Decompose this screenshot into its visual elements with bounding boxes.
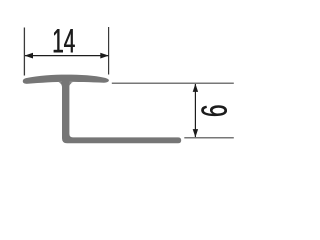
extension line left of dimension 14 — [23, 28, 25, 76]
dimension line 14 — [25, 55, 109, 57]
svg-text:9: 9 — [193, 105, 233, 117]
extension line right of dimension 14 — [108, 27, 110, 75]
dimension text 14 — [52, 22, 76, 61]
extension line bottom of dimension 9 — [184, 137, 234, 139]
arrowhead up — [193, 84, 198, 92]
svg-text:14: 14 — [53, 22, 76, 61]
stem-cap fillet right — [69, 82, 72, 87]
profile stem and foot (L-shaped web) — [62, 81, 181, 144]
arrowhead right — [100, 53, 109, 59]
extension line top of dimension 9 — [112, 82, 234, 84]
dimension text 9 (rotated) — [193, 104, 233, 117]
arrowhead down — [193, 129, 198, 137]
stem-cap fillet left — [59, 82, 62, 87]
arrowhead left — [25, 53, 34, 59]
dimension line 9 — [194, 84, 196, 137]
profile cap (top horizontal flange) — [23, 75, 109, 84]
